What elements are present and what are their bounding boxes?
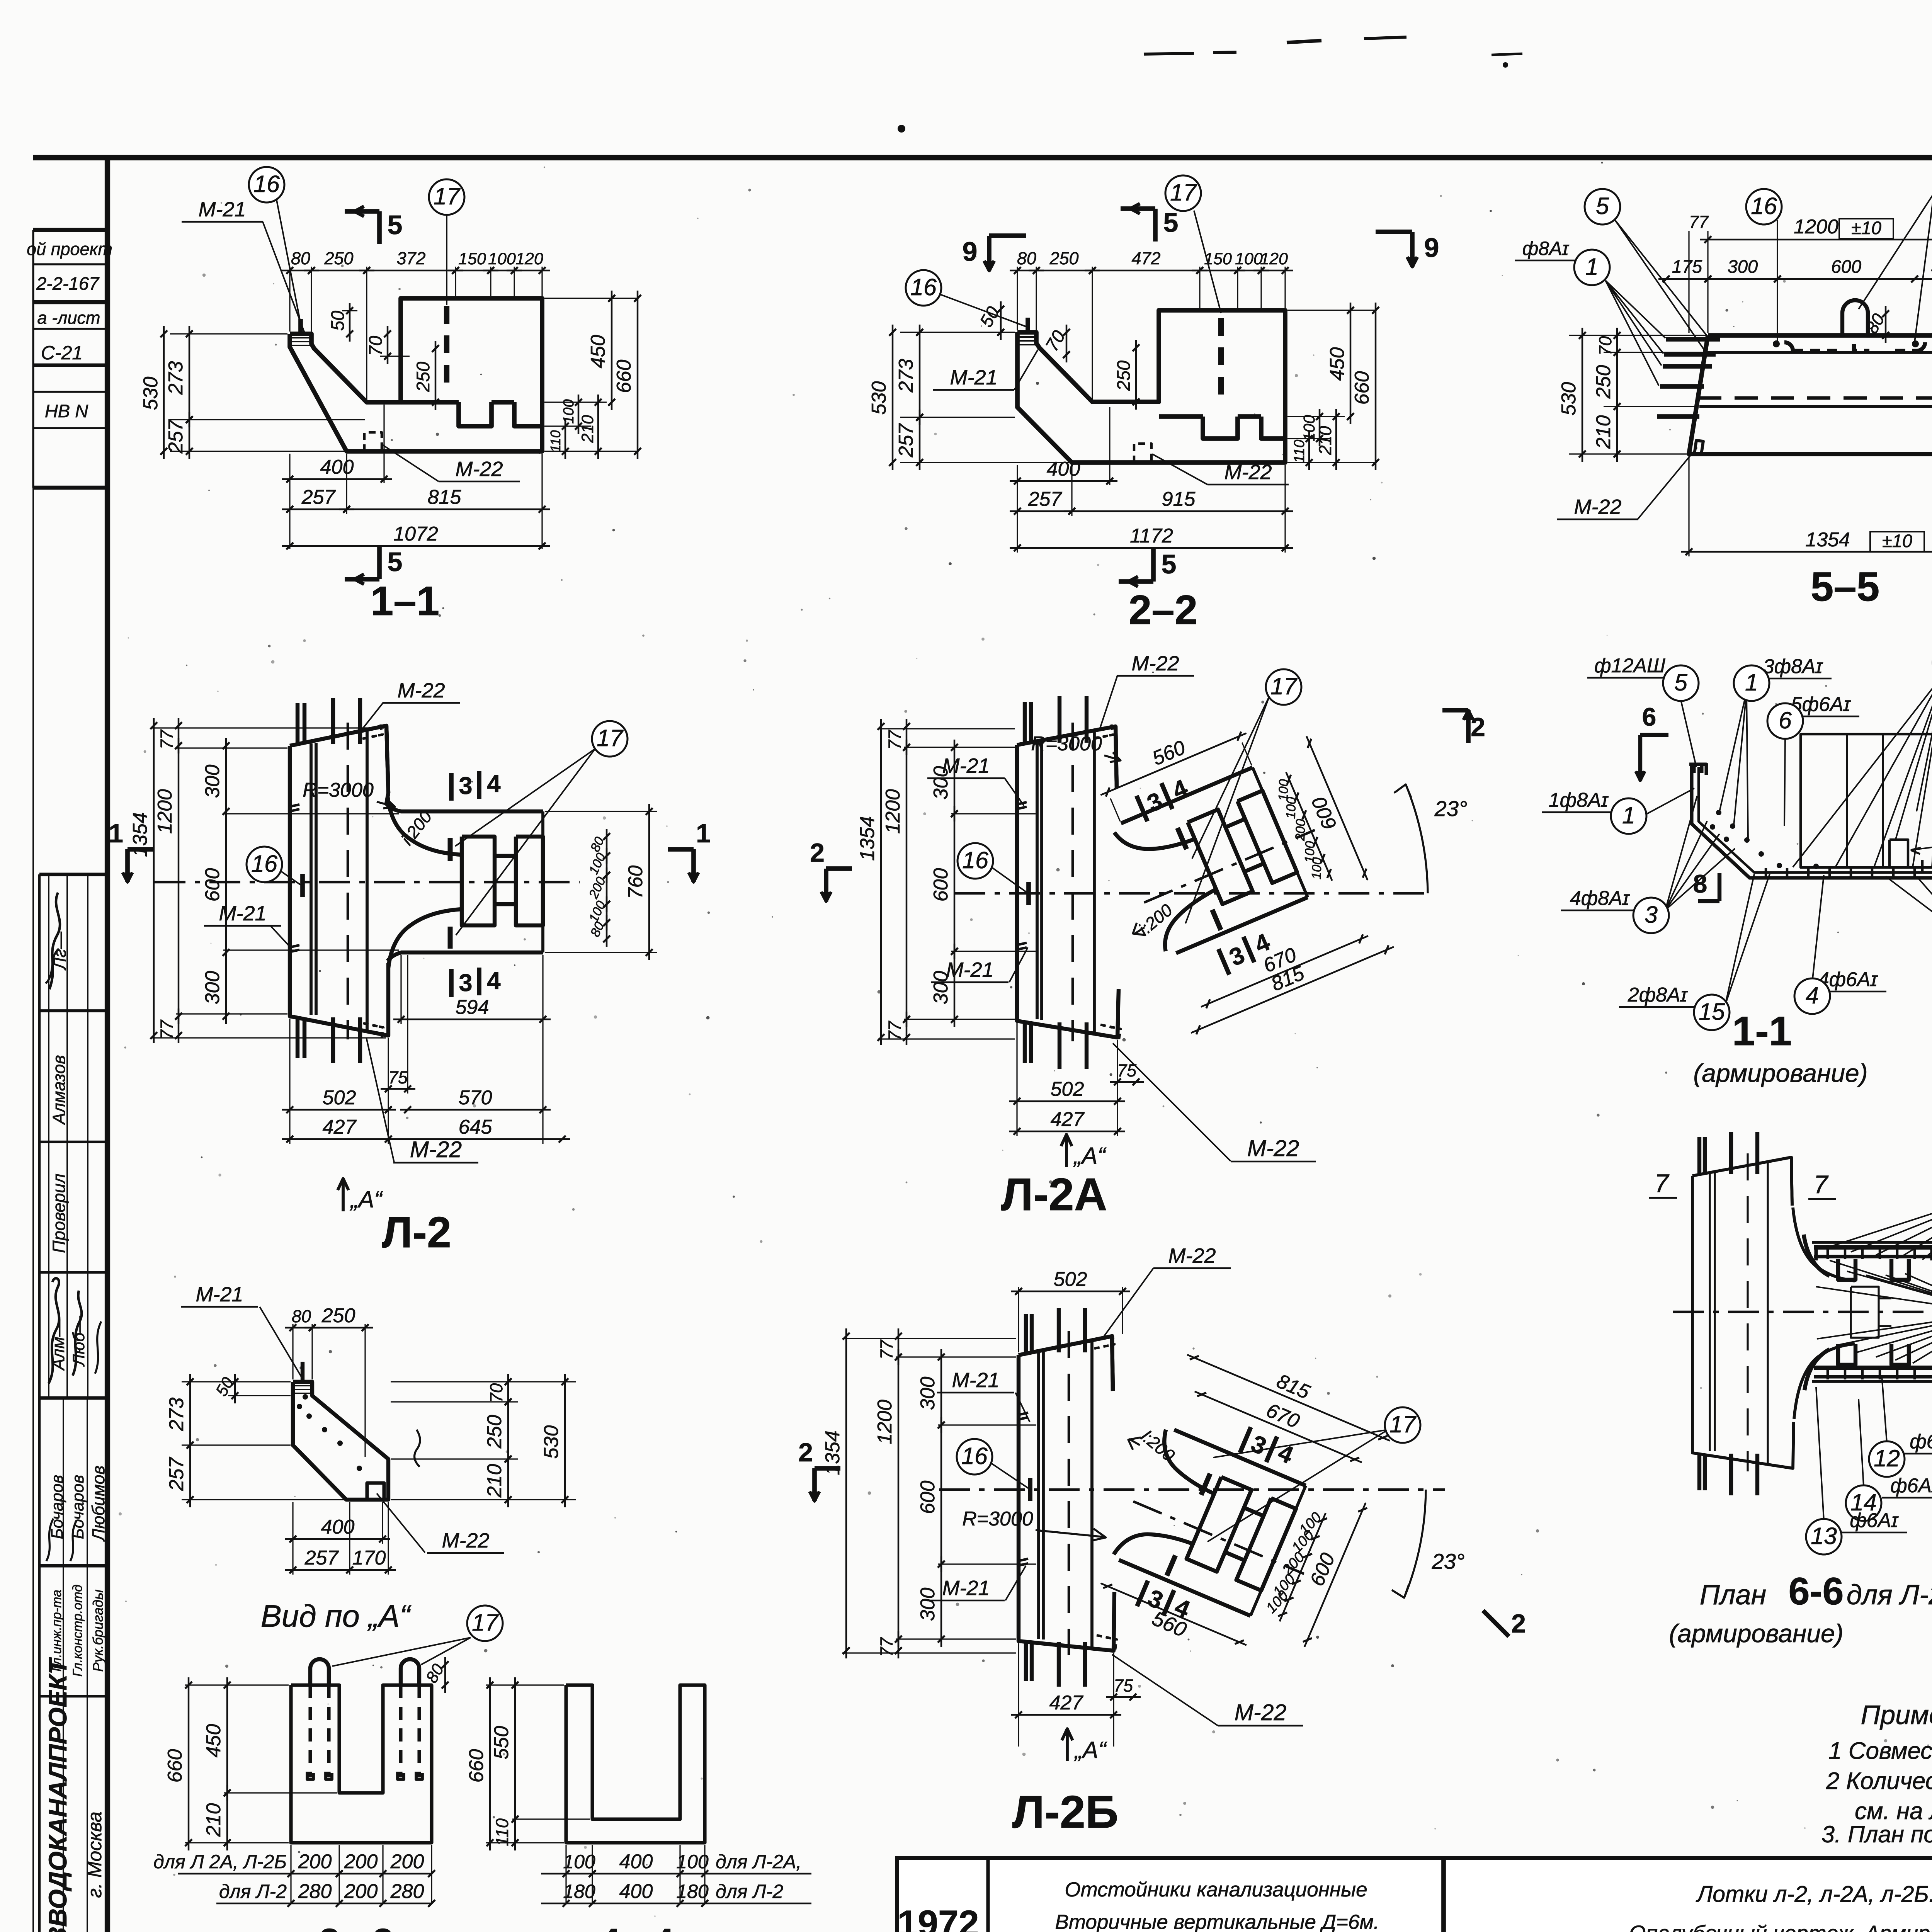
plan L-2A inner lines [1037, 723, 1094, 1041]
callout circle 5 sec5-5 [1585, 189, 1708, 352]
svg-text:250: 250 [1113, 361, 1134, 391]
svg-text:502: 502 [323, 1087, 356, 1109]
svg-text:12: 12 [1874, 1445, 1900, 1471]
plan L-2B slab outline [1019, 1336, 1114, 1651]
section 2-2 cut mark 5 top [1121, 204, 1178, 241]
plan L-2 M-21 plate marks [289, 804, 299, 952]
svg-text:120: 120 [1260, 250, 1288, 268]
svg-text:100: 100 [488, 250, 516, 268]
section 1-1 concrete profile outline [290, 298, 542, 451]
svg-text:400: 400 [619, 1850, 653, 1873]
plan6-6 inner lines [1710, 1153, 1768, 1471]
svg-text:9: 9 [1424, 233, 1439, 263]
svg-text:9: 9 [963, 236, 978, 267]
callout circle 16 sec1-1 [249, 167, 301, 324]
svg-text:280: 280 [390, 1880, 424, 1903]
svg-text:400: 400 [321, 1516, 355, 1538]
section 5-5 slab outline [1689, 335, 1932, 454]
plan6-6 curved cage fillets [1804, 1235, 1830, 1390]
svg-text:180: 180 [676, 1881, 709, 1902]
plan6-6 bottom rebar stubs [1699, 1454, 1757, 1495]
callout circle 17 sec2-2 [1165, 175, 1221, 313]
top-left side stamp texts [27, 239, 112, 421]
svg-text:Примечания:: Примечания: [1861, 1700, 1932, 1730]
callout circle 1 sec5-5 [1574, 250, 1665, 386]
svg-text:110: 110 [492, 1818, 512, 1846]
svg-text:250: 250 [324, 248, 353, 268]
svg-text:570: 570 [459, 1087, 492, 1109]
section 5-5 mid solid line [1699, 405, 1932, 408]
plan L-2 inner lines [311, 723, 367, 1039]
section 5-5 top dim 1200 [1689, 211, 1932, 333]
svg-text:1072: 1072 [393, 523, 438, 545]
plan L-2 M-22 bottom label [363, 1023, 478, 1163]
plan L-2B view A arrow [1062, 1729, 1107, 1763]
svg-text:Лотки л-2, л-2А, л-2Б.: Лотки л-2, л-2А, л-2Б. [1696, 1881, 1932, 1907]
svg-text:3. План по 8-8 (армирование Л-: 3. План по 8-8 (армирование Л-2) см. лис… [1821, 1821, 1932, 1847]
svg-text:200: 200 [344, 1850, 378, 1873]
callout 17 plan L-2B [1207, 1407, 1420, 1542]
svg-text:502: 502 [1051, 1078, 1084, 1100]
section 2-2 cut mark 9 left [963, 236, 1026, 270]
svg-text:±10: ±10 [1851, 218, 1881, 238]
section 1-1 dim 250 inner [413, 341, 439, 410]
svg-text:3: 3 [459, 969, 472, 997]
svg-text:6: 6 [1642, 702, 1656, 731]
title L-2B [1012, 1786, 1119, 1838]
svg-text:70: 70 [1595, 336, 1615, 355]
label M-21 sec5-5 [1859, 170, 1932, 342]
plan L-2B M-21 top label [937, 1369, 1030, 1422]
plan L-2A M-21 top label [927, 754, 1024, 806]
svg-text:175: 175 [1672, 256, 1702, 277]
vid-A top dims [285, 1304, 373, 1457]
svg-text:13: 13 [1811, 1523, 1837, 1549]
svg-text:17: 17 [1270, 673, 1298, 699]
section 2-2 dim 50 [976, 301, 1004, 340]
svg-text:100: 100 [676, 1851, 709, 1872]
svg-text:для Л-2: для Л-2 [219, 1881, 287, 1902]
plan6-6 slab outline [1692, 1157, 1794, 1468]
callout 3 sec1-1arm [1561, 796, 1735, 933]
svg-text:70: 70 [486, 1383, 506, 1403]
svg-text:„А“: „А“ [1073, 1737, 1107, 1763]
section 1-1 cut mark 5 bottom [345, 546, 402, 584]
plan L-2B top rebar stubs [1026, 1308, 1085, 1352]
vid-A dots [297, 1394, 362, 1471]
svg-text:427: 427 [323, 1116, 357, 1138]
svg-text:23°: 23° [1432, 1549, 1465, 1573]
svg-text:ф6Аɪ: ф6Аɪ [1850, 1509, 1899, 1532]
section 1-1 M-21 plate hatch [290, 338, 311, 345]
svg-text:ой проект: ой проект [27, 239, 112, 259]
plan L-2B rotated branch [1083, 1333, 1404, 1689]
callout 1 left sec1-1arm [1542, 788, 1694, 834]
svg-text:472: 472 [1131, 248, 1160, 268]
plan L-2A bottom rebar stubs [1025, 1022, 1087, 1069]
callout 16 plan L-2B [957, 1439, 1029, 1488]
plan L-2B left dim chains [821, 1328, 1036, 1658]
svg-text:1354: 1354 [1805, 529, 1850, 551]
svg-text:530: 530 [1558, 382, 1580, 416]
svg-text:1: 1 [1745, 669, 1758, 696]
label f8AI sec5-5 [1515, 238, 1577, 260]
section 2-2 cut mark 9 right [1376, 232, 1439, 267]
svg-text:М-22: М-22 [410, 1137, 462, 1162]
svg-text:660: 660 [465, 1749, 488, 1783]
section 1-1 top dim chain [282, 248, 550, 400]
svg-text:Бочаров: Бочаров [69, 1475, 87, 1539]
svg-text:М-21: М-21 [946, 958, 993, 981]
svg-text:(армирование): (армирование) [1693, 1059, 1867, 1087]
svg-text:1200: 1200 [874, 1400, 896, 1444]
svg-text:200: 200 [390, 1850, 424, 1873]
title block year [897, 1903, 985, 1932]
svg-text:Проверил: Проверил [49, 1173, 69, 1253]
svg-text:1354: 1354 [856, 816, 879, 861]
svg-text:7: 7 [1814, 1170, 1829, 1199]
svg-text:300: 300 [1728, 256, 1758, 277]
plan L-2A R3000 label [1031, 733, 1121, 762]
callout 12 plan6-6 [1869, 1376, 1932, 1477]
plan L-2 slab outline [290, 726, 388, 1036]
vid-A M-22 square [367, 1483, 384, 1500]
callout 5 sec1-1arm [1587, 655, 1699, 767]
section 1-1 M-22 embed dashed square [364, 432, 382, 451]
svg-text:100: 100 [561, 399, 577, 423]
svg-text:3: 3 [459, 772, 472, 799]
svg-text:М-22: М-22 [1235, 1700, 1286, 1725]
plan L-2 M-22 top label [361, 679, 460, 739]
plan L-2 pos17 bold ticks [448, 838, 453, 949]
plan L-2B bottom rebar stubs [1026, 1642, 1085, 1687]
title L-2 [382, 1208, 451, 1257]
svg-text:для Л-2А,: для Л-2А, [716, 1851, 801, 1872]
svg-text:250: 250 [413, 362, 433, 392]
plan L-2B top dim 502 [1011, 1268, 1130, 1352]
section 1-1 bottom dims 257 815 [282, 454, 550, 549]
section 5-5 lifting loop M-21 [1842, 300, 1868, 335]
svg-text:7: 7 [1655, 1169, 1670, 1197]
title detail 3-3 [319, 1921, 393, 1932]
svg-text:М-21: М-21 [952, 1369, 999, 1392]
plan L-2 mark 3-4 top [451, 770, 501, 801]
svg-text:Вид по „А“: Вид по „А“ [261, 1599, 412, 1634]
svg-text:„А“: „А“ [1073, 1143, 1106, 1169]
svg-text:Л-2Б: Л-2Б [1012, 1786, 1119, 1838]
svg-text:210: 210 [578, 415, 597, 443]
svg-text:257: 257 [895, 423, 917, 458]
plan L-2A R200 label [1133, 900, 1176, 939]
svg-text:427: 427 [1049, 1692, 1084, 1714]
svg-text:16: 16 [251, 850, 277, 877]
svg-text:3: 3 [1645, 901, 1658, 928]
svg-text:г.: г. [972, 1928, 985, 1932]
svg-text:16: 16 [1751, 193, 1777, 219]
svg-text:ф6Аɪ: ф6Аɪ [1910, 1430, 1932, 1453]
svg-text:17: 17 [434, 183, 461, 209]
section 2-2 right dim chains [1287, 303, 1379, 470]
svg-text:17: 17 [1170, 179, 1197, 206]
svg-text:2-2-167: 2-2-167 [36, 273, 100, 294]
svg-text:660: 660 [613, 360, 635, 393]
section 2-2 bottom dim 1172 [1010, 525, 1293, 551]
callout 10 plan6-6 [1816, 1260, 1932, 1363]
plan L-2 top rebar stubs [298, 698, 360, 744]
svg-text:200: 200 [344, 1880, 378, 1903]
svg-text:4: 4 [487, 968, 500, 995]
plan L-2 bottom dims [282, 955, 570, 1144]
plan L-2A M-21 bottom label [931, 947, 1028, 982]
plan L-2 mouth fillets [386, 796, 462, 968]
plan L-2A centerline [954, 892, 1430, 895]
title plan6-6 [1669, 1570, 1932, 1648]
svg-text:6: 6 [1779, 707, 1792, 733]
callout 17 plan L-2A [1185, 669, 1301, 923]
plan L-2B section mark 2 left [798, 1438, 840, 1501]
svg-text:ф6Аɪ: ф6Аɪ [1890, 1475, 1932, 1497]
plan L-2B M-21 plate marks [1018, 1413, 1028, 1566]
svg-text:Любимов: Любимов [88, 1466, 108, 1542]
svg-text:120: 120 [515, 250, 543, 268]
svg-text:4ф8Аɪ: 4ф8Аɪ [1570, 887, 1630, 910]
svg-text:М-22: М-22 [1247, 1136, 1299, 1161]
callout 29 sec1-1arm [1911, 822, 1932, 857]
svg-text:5: 5 [388, 210, 403, 240]
svg-text:План: План [1700, 1580, 1766, 1611]
section 5-5 chain 175-300-600-300-175 [1658, 256, 1932, 282]
svg-text:280: 280 [298, 1880, 332, 1903]
vid-A right dims [391, 1374, 576, 1507]
svg-text:М-21: М-21 [196, 1283, 243, 1306]
svg-text:300: 300 [201, 971, 224, 1005]
svg-text:273: 273 [165, 361, 187, 395]
svg-text:М-22: М-22 [397, 679, 445, 702]
svg-text:450: 450 [587, 335, 609, 369]
callout 14 plan6-6 [1846, 1399, 1932, 1521]
svg-text:300: 300 [917, 1588, 939, 1621]
svg-text:1200: 1200 [1794, 216, 1838, 238]
section 1-1 bottom dim 400 [282, 405, 392, 549]
svg-text:427: 427 [1051, 1108, 1085, 1131]
plan L-2A pos16 bar [1026, 882, 1031, 905]
callout 6 mid sec1-1arm [1767, 693, 1859, 826]
section 2-2 anchor bar pos16 [1026, 318, 1030, 332]
plan6-6 top cage [1814, 1245, 1932, 1280]
plan L-2A M-21 plate marks [1016, 802, 1027, 950]
sec1-1arm ledge hooks [1689, 764, 1706, 775]
notes primechaniya [1821, 1700, 1932, 1847]
plan L-2 centerline [155, 881, 580, 884]
svg-text:600: 600 [201, 868, 224, 902]
detail 3-3 loops [307, 1659, 422, 1779]
svg-text:М-21: М-21 [198, 198, 246, 221]
section 2-2 dim 70 [1041, 325, 1070, 362]
label M-21 sec1-1 [182, 198, 305, 335]
svg-text:257: 257 [301, 486, 336, 509]
plan L-2A view A arrow [1061, 1134, 1106, 1169]
section 1-1 cut mark 5 top [345, 206, 402, 244]
svg-text:М-21: М-21 [942, 754, 990, 777]
section 5-5 left rebar stubs [1657, 339, 1720, 417]
signature scribble bottom stamp rows [46, 1519, 77, 1561]
plan L-2A top rebar stubs [1025, 696, 1087, 743]
svg-text:5: 5 [1674, 669, 1688, 696]
svg-text:5: 5 [388, 547, 403, 577]
svg-text:77: 77 [885, 1020, 905, 1041]
svg-text:23°: 23° [1434, 796, 1468, 821]
top-left side stamp table [33, 230, 107, 488]
title vid-A [261, 1599, 412, 1634]
svg-text:100: 100 [1284, 797, 1299, 819]
title block object text [1055, 1878, 1379, 1932]
svg-text:3ф8Аɪ: 3ф8Аɪ [1763, 655, 1823, 678]
label M-22 sec2-2 [1152, 454, 1289, 485]
callout circle 17 sec1-1 [429, 179, 464, 305]
title block frame [897, 1858, 1932, 1932]
org name SOYUZVODOKANALPROEKT [43, 1657, 105, 1932]
middle-left signature stamp grid [39, 874, 108, 1398]
plan6-6 centerline [1673, 1311, 1932, 1313]
section 2-2 top dim chain [1010, 248, 1293, 400]
svg-text:ф8Аɪ: ф8Аɪ [1522, 238, 1570, 259]
svg-text:R=3000: R=3000 [962, 1508, 1033, 1530]
svg-text:645: 645 [459, 1116, 493, 1138]
svg-text:600: 600 [930, 868, 952, 902]
section 5-5 bottom dim 1354 [1681, 456, 1932, 556]
plan L-2A section mark 2 top right [1442, 710, 1485, 743]
section 2-2 bottom dims 257 915 [1010, 465, 1293, 553]
section 1-1 left dim chain [139, 326, 365, 459]
svg-text:Л-2: Л-2 [382, 1208, 451, 1257]
plan L-2 R3000 label [303, 779, 395, 808]
svg-text:100: 100 [1235, 250, 1263, 268]
plan L-2B M-22 bottom label [1097, 1635, 1303, 1726]
svg-text:273: 273 [895, 359, 917, 393]
plan L-2B 23deg arc [1392, 1490, 1464, 1598]
plan L-2 mouth shelf edges [401, 811, 543, 952]
svg-text:250: 250 [483, 1415, 506, 1449]
section 5-5 dim 80 loop [1862, 306, 1889, 343]
svg-text:210: 210 [1315, 426, 1335, 455]
svg-text:600: 600 [917, 1481, 939, 1514]
callout 16 plan L-2 [247, 847, 301, 885]
svg-text:М-22: М-22 [1224, 461, 1272, 484]
svg-text:450: 450 [1326, 347, 1349, 381]
plan L-2B bottom dims [1011, 1643, 1141, 1747]
plan L-2A 23deg arc [1394, 784, 1467, 893]
sec1-1arm cut mark 6 left [1636, 702, 1668, 781]
svg-text:760: 760 [624, 866, 647, 899]
svg-text:600: 600 [1831, 256, 1861, 277]
svg-text:594: 594 [456, 996, 489, 1019]
svg-text:210: 210 [483, 1464, 506, 1498]
svg-text:200: 200 [298, 1850, 332, 1873]
svg-text:(армирование): (армирование) [1669, 1619, 1843, 1648]
section 5-5 left dim chains [1558, 328, 1706, 462]
plan L-2A M-22 bottom label [1100, 1025, 1316, 1162]
plan L-2A left dim chains [856, 719, 1036, 1045]
vid-A anchor bar [301, 1362, 304, 1382]
title detail 4-4 [600, 1921, 674, 1932]
svg-text:450: 450 [202, 1724, 225, 1758]
plan6-6 top rebar stubs [1699, 1132, 1757, 1174]
vid-A zigzag break [415, 1430, 420, 1467]
callout 16 plan L-2A [957, 843, 1027, 893]
svg-text:4: 4 [487, 770, 500, 798]
vid-A dim 50 [212, 1374, 291, 1403]
svg-text:R=3000: R=3000 [303, 779, 374, 801]
label M-22 sec1-1 [382, 444, 520, 481]
svg-text:г. Москва: г. Москва [84, 1811, 105, 1898]
svg-text:250: 250 [1592, 365, 1615, 399]
plan L-2 right dim chains [545, 804, 657, 960]
svg-text:80: 80 [291, 248, 310, 268]
svg-text:3 - 3: 3 - 3 [319, 1921, 393, 1932]
svg-text:16: 16 [961, 1443, 988, 1469]
svg-text:300: 300 [917, 1377, 939, 1410]
sec1-1arm cut mark 8 left [1693, 869, 1719, 901]
svg-text:210: 210 [202, 1803, 225, 1837]
detail 3-3 bars outline [291, 1685, 432, 1843]
section 2-2 M-22 embed dashed square [1134, 444, 1151, 463]
scan marks top [898, 37, 1932, 133]
svg-text:77: 77 [877, 1637, 896, 1657]
svg-text:Л-2А: Л-2А [1001, 1169, 1107, 1220]
callout circle 16 sec2-2 [906, 270, 1026, 327]
svg-text:257: 257 [1028, 488, 1063, 510]
section 2-2 dashed rod pos17 [1218, 318, 1224, 406]
svg-text:372: 372 [396, 248, 425, 268]
svg-text:НВ N: НВ N [45, 401, 88, 421]
svg-text:273: 273 [165, 1398, 188, 1432]
plan L-2 bottom rebar stubs [298, 1017, 360, 1063]
svg-text:17: 17 [1389, 1411, 1417, 1437]
svg-text:50: 50 [327, 311, 348, 331]
sec1-1arm slot box [1889, 840, 1908, 867]
svg-text:М-21: М-21 [219, 902, 266, 925]
bottom-left org stamp names [48, 1466, 108, 1677]
plan L-2B R200 label [1128, 1425, 1179, 1465]
svg-text:77: 77 [157, 729, 177, 749]
svg-text:915: 915 [1162, 488, 1196, 510]
section 1-1 dim 70 [365, 326, 410, 364]
section 1-1 dim 50 [327, 303, 357, 342]
svg-text:М-22: М-22 [1168, 1244, 1216, 1267]
svg-text:М-22: М-22 [455, 457, 503, 481]
svg-text:1972: 1972 [897, 1903, 979, 1932]
title 2-2 [1129, 587, 1198, 633]
svg-text:6-6: 6-6 [1788, 1570, 1844, 1612]
svg-text:530: 530 [540, 1425, 563, 1459]
plan L-2A rotated branch [1083, 689, 1400, 1036]
svg-text:„А“: „А“ [349, 1186, 383, 1213]
svg-text:300: 300 [201, 765, 224, 798]
svg-text:М-22: М-22 [442, 1529, 489, 1552]
svg-text:502: 502 [1054, 1268, 1087, 1291]
sec1-1arm wall rectangle [1801, 734, 1932, 867]
svg-text:5: 5 [1596, 193, 1609, 219]
callout 17 details [332, 1605, 503, 1666]
svg-text:Отстойники канализационные: Отстойники канализационные [1065, 1878, 1367, 1901]
sec1-1arm cage outline [1692, 764, 1932, 878]
svg-text:17: 17 [597, 725, 624, 751]
plan L-2B centerline [939, 1488, 1445, 1491]
title 1-1 [371, 578, 440, 624]
svg-text:4 - 4: 4 - 4 [600, 1921, 674, 1932]
svg-text:Гл.констр.отд: Гл.констр.отд [70, 1585, 85, 1677]
plan L-2 section mark 1 right [668, 819, 711, 882]
